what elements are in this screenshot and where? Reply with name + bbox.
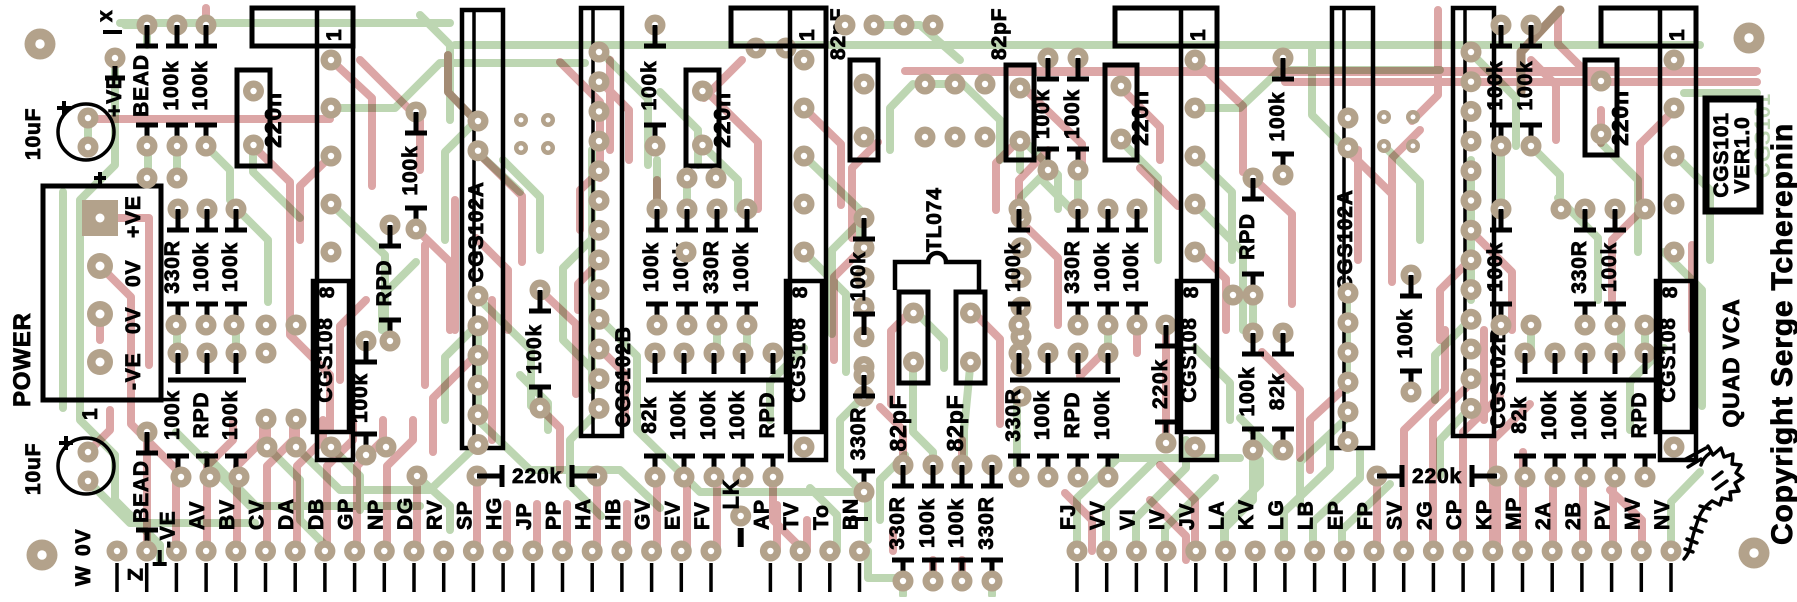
resistor R41 100k bbox=[1266, 58, 1294, 175]
header U9 CGS108 channel4 bbox=[1601, 8, 1696, 460]
svg-text:330R: 330R bbox=[1061, 240, 1084, 293]
resistor R50 330R bbox=[1568, 209, 1596, 325]
node GP bbox=[344, 541, 365, 562]
silk bus bar block3 bbox=[1010, 378, 1120, 383]
node SV bbox=[1393, 541, 1414, 562]
node 2G bbox=[1423, 541, 1444, 562]
svg-text:RPD: RPD bbox=[190, 392, 213, 439]
node FJ bbox=[1067, 541, 1088, 562]
svg-text:2B: 2B bbox=[1562, 502, 1585, 530]
svg-text:100k: 100k bbox=[1031, 89, 1054, 139]
node RV bbox=[433, 541, 454, 562]
svg-text:LB: LB bbox=[1295, 500, 1318, 530]
svg-text:CGS101: CGS101 bbox=[1710, 112, 1733, 197]
node VV bbox=[1096, 541, 1117, 562]
svg-text:JV: JV bbox=[1176, 503, 1199, 530]
resistor R35 100k bbox=[1120, 209, 1148, 325]
svg-text:100k: 100k bbox=[1394, 309, 1417, 359]
svg-text:100k: 100k bbox=[640, 242, 663, 292]
capacitor C9 220n bbox=[1105, 65, 1153, 160]
node x marker bbox=[94, 10, 122, 32]
resistor R24 330R bbox=[847, 375, 875, 492]
resistor R56 RPD bbox=[1628, 353, 1656, 477]
svg-text:DA: DA bbox=[275, 498, 298, 530]
resistor R30 100k bbox=[1031, 58, 1059, 170]
node HG bbox=[493, 541, 514, 562]
resistor R12 100k bbox=[638, 25, 666, 146]
svg-text:100k: 100k bbox=[1484, 242, 1507, 292]
node DA bbox=[285, 541, 306, 562]
resistor R43 100k bbox=[1236, 333, 1264, 450]
svg-text:100k: 100k bbox=[638, 61, 661, 111]
svg-text:VER1.0: VER1.0 bbox=[1731, 116, 1754, 193]
svg-text:MP: MP bbox=[1503, 497, 1526, 530]
svg-text:330R: 330R bbox=[847, 407, 870, 460]
ferrite bead L2 bbox=[130, 432, 158, 551]
resistor R39 100k bbox=[1091, 353, 1119, 477]
svg-text:BN: BN bbox=[840, 498, 863, 530]
svg-text:100k: 100k bbox=[523, 324, 546, 374]
svg-text:IV: IV bbox=[1146, 509, 1169, 530]
svg-text:GP: GP bbox=[335, 498, 358, 530]
svg-text:100k: 100k bbox=[399, 146, 422, 196]
silk bus bar block4 bbox=[1516, 378, 1656, 383]
resistor R44 82k bbox=[1266, 333, 1294, 450]
svg-text:BEAD: BEAD bbox=[130, 54, 153, 117]
resistor R52 82k bbox=[1508, 353, 1536, 477]
header U7 CGS102A channel4 bbox=[1332, 8, 1373, 448]
wire silk dash near To bbox=[845, 517, 868, 521]
svg-text:NP: NP bbox=[364, 499, 387, 530]
svg-text:100k: 100k bbox=[1484, 61, 1507, 111]
svg-text:NV: NV bbox=[1651, 499, 1674, 530]
svg-text:8: 8 bbox=[789, 286, 812, 298]
resistor R1 100k bbox=[160, 25, 188, 146]
svg-text:220n: 220n bbox=[1127, 90, 1153, 146]
svg-text:1: 1 bbox=[1187, 29, 1210, 41]
node PP bbox=[552, 541, 573, 562]
node +VE pad bbox=[105, 48, 126, 69]
svg-text:82pF: 82pF bbox=[988, 8, 1011, 60]
capacitor C6 82pF bbox=[885, 292, 928, 451]
svg-text:100k: 100k bbox=[945, 498, 968, 548]
resistor R37 100k bbox=[1031, 353, 1059, 477]
capacitor C7 82pF bbox=[942, 292, 985, 451]
svg-text:CGS102A: CGS102A bbox=[1334, 189, 1357, 290]
svg-text:DB: DB bbox=[305, 498, 328, 530]
resistor R7 RPD bbox=[190, 353, 218, 477]
svg-text:8: 8 bbox=[1659, 286, 1682, 298]
svg-text:100k: 100k bbox=[161, 390, 184, 440]
svg-text:CGS108: CGS108 bbox=[787, 317, 810, 402]
svg-text:MV: MV bbox=[1621, 497, 1644, 530]
svg-text:PP: PP bbox=[543, 500, 566, 530]
svg-text:82pF: 82pF bbox=[885, 395, 911, 452]
svg-text:+VE: +VE bbox=[122, 195, 145, 238]
svg-text:DG: DG bbox=[394, 497, 417, 530]
resistor R45 100k bbox=[1394, 275, 1422, 392]
svg-text:100k: 100k bbox=[1514, 61, 1537, 111]
mounting hole bbox=[1739, 538, 1770, 569]
node EV bbox=[671, 541, 692, 562]
mounting hole bbox=[27, 540, 58, 571]
svg-text:AV: AV bbox=[186, 501, 209, 530]
svg-text:CGS102B: CGS102B bbox=[612, 326, 635, 427]
svg-text:LA: LA bbox=[1206, 500, 1229, 530]
svg-text:330R: 330R bbox=[886, 496, 909, 549]
node SP bbox=[463, 541, 484, 562]
resistor R32 100k bbox=[1002, 209, 1030, 325]
node NP bbox=[374, 541, 395, 562]
label CGS101 VER1.0 box bbox=[1706, 99, 1760, 211]
svg-text:220n: 220n bbox=[709, 92, 735, 148]
svg-text:100k: 100k bbox=[349, 373, 372, 423]
resistor R40 220k bbox=[1149, 325, 1177, 443]
svg-text:VI: VI bbox=[1116, 509, 1139, 530]
node PV bbox=[1601, 541, 1622, 562]
svg-text:RPD: RPD bbox=[373, 260, 396, 307]
svg-text:FJ: FJ bbox=[1057, 504, 1080, 530]
silk bus bar block1 bbox=[168, 378, 246, 383]
svg-text:100k: 100k bbox=[1538, 390, 1561, 440]
svg-text:RPD: RPD bbox=[756, 392, 779, 439]
resistor R47 100k bbox=[1484, 25, 1512, 146]
resistor R55 100k bbox=[1598, 353, 1626, 477]
resistor R10 100k bbox=[523, 290, 551, 408]
svg-text:1: 1 bbox=[79, 408, 102, 420]
node AP bbox=[760, 541, 781, 562]
header U5 CGS108 channel2 bbox=[731, 8, 826, 460]
svg-text:RPD: RPD bbox=[1628, 392, 1651, 439]
capacitor C3 220n bbox=[237, 70, 286, 166]
node AV bbox=[196, 541, 217, 562]
capacitor C4 220n bbox=[686, 70, 735, 166]
header U3 CGS102A channel1 bbox=[462, 10, 503, 448]
resistor R15 330R bbox=[700, 209, 728, 325]
svg-text:JP: JP bbox=[513, 503, 536, 530]
node HA bbox=[582, 541, 603, 562]
svg-text:FV: FV bbox=[691, 502, 714, 530]
svg-text:POWER: POWER bbox=[9, 312, 36, 407]
svg-text:100k: 100k bbox=[160, 61, 183, 111]
svg-text:1: 1 bbox=[1666, 29, 1689, 41]
node VI bbox=[1126, 541, 1147, 562]
node HB bbox=[611, 541, 632, 562]
svg-text:100k: 100k bbox=[667, 390, 690, 440]
header U4 CGS102B channel1 bbox=[581, 8, 635, 436]
svg-text:220k: 220k bbox=[1149, 359, 1172, 409]
svg-text:82k: 82k bbox=[1508, 396, 1531, 433]
header U6 CGS108 channel3 bbox=[1115, 8, 1217, 460]
svg-text:330R: 330R bbox=[975, 496, 998, 549]
node JP bbox=[522, 541, 543, 562]
svg-text:EV: EV bbox=[661, 500, 684, 530]
svg-text:CGS108: CGS108 bbox=[1178, 317, 1201, 402]
resistor R54 100k bbox=[1568, 353, 1596, 477]
node +VE label bbox=[103, 66, 126, 117]
mounting hole bbox=[1734, 23, 1765, 54]
svg-text:100k: 100k bbox=[847, 252, 870, 302]
svg-text:-VE: -VE bbox=[156, 511, 179, 548]
node NV bbox=[1661, 541, 1682, 562]
svg-text:10uF: 10uF bbox=[22, 443, 45, 495]
svg-text:FP: FP bbox=[1354, 502, 1377, 530]
svg-text:330R: 330R bbox=[161, 240, 184, 293]
svg-text:330R: 330R bbox=[700, 240, 723, 293]
svg-text:-VE: -VE bbox=[122, 353, 145, 390]
svg-text:100k: 100k bbox=[189, 61, 212, 111]
svg-text:CGS102A: CGS102A bbox=[465, 181, 488, 282]
svg-text:100k: 100k bbox=[1091, 390, 1114, 440]
capacitor C2 10uF bbox=[22, 436, 114, 495]
svg-text:QUAD VCA: QUAD VCA bbox=[1718, 298, 1744, 427]
svg-text:100k: 100k bbox=[1002, 242, 1025, 292]
svg-text:KV: KV bbox=[1235, 499, 1258, 530]
node LG bbox=[1274, 541, 1295, 562]
svg-text:To: To bbox=[810, 504, 833, 530]
resistor R14 100k bbox=[670, 209, 698, 325]
node DG bbox=[404, 541, 425, 562]
svg-text:PV: PV bbox=[1592, 500, 1615, 530]
svg-text:100k: 100k bbox=[219, 242, 242, 292]
svg-text:100k: 100k bbox=[1120, 242, 1143, 292]
node W bbox=[107, 541, 128, 562]
svg-text:82k: 82k bbox=[638, 396, 661, 433]
svg-text:220n: 220n bbox=[260, 92, 286, 148]
node -VE bbox=[166, 541, 187, 562]
capacitor C10 220n bbox=[1585, 60, 1633, 155]
resistor R31 100k bbox=[1061, 58, 1089, 170]
resistor R22 100k bbox=[847, 218, 875, 335]
resistor R34 100k bbox=[1091, 209, 1119, 325]
resistor R38 RPD bbox=[1061, 353, 1089, 477]
ferrite bead L1 bbox=[130, 25, 158, 146]
resistor R61 RPD bbox=[373, 225, 401, 341]
svg-text:10uF: 10uF bbox=[22, 108, 45, 160]
resistor R2 100k bbox=[189, 25, 217, 146]
svg-text:100k: 100k bbox=[1091, 242, 1114, 292]
svg-text:100k: 100k bbox=[1236, 367, 1259, 417]
svg-text:100k: 100k bbox=[1598, 242, 1621, 292]
node TV bbox=[790, 541, 811, 562]
resistor R26 330R bbox=[886, 465, 914, 581]
node CV bbox=[255, 541, 276, 562]
node LB bbox=[1304, 541, 1325, 562]
resistor R16 100k bbox=[730, 209, 758, 325]
svg-text:100k: 100k bbox=[190, 242, 213, 292]
svg-text:8: 8 bbox=[316, 286, 339, 298]
resistor R27 100k bbox=[916, 465, 944, 581]
node FV bbox=[701, 541, 722, 562]
node CP bbox=[1453, 541, 1474, 562]
svg-text:TV: TV bbox=[780, 502, 803, 530]
mounting hole bbox=[25, 29, 56, 60]
resistor R46 220k bbox=[1377, 465, 1497, 488]
silk bus bar block2 bbox=[646, 378, 784, 383]
svg-text:GV: GV bbox=[632, 498, 655, 530]
svg-text:EP: EP bbox=[1324, 500, 1347, 530]
resistor R28 100k bbox=[945, 465, 973, 581]
svg-text:CGS102B: CGS102B bbox=[1487, 327, 1510, 428]
svg-text:100k: 100k bbox=[916, 498, 939, 548]
resistor R4 100k bbox=[190, 209, 218, 325]
svg-text:100k: 100k bbox=[219, 390, 242, 440]
svg-text:AP: AP bbox=[750, 499, 773, 530]
capacitor C1 10uF bbox=[22, 101, 114, 160]
node BN bbox=[849, 541, 870, 562]
svg-text:220k: 220k bbox=[1412, 465, 1462, 488]
resistor R60 100k bbox=[399, 112, 427, 229]
svg-text:Copyright Serge Tcherepnin: Copyright Serge Tcherepnin bbox=[1766, 123, 1797, 545]
resistor R53 100k bbox=[1538, 353, 1566, 477]
node FP bbox=[1364, 541, 1385, 562]
via cluster 2 bbox=[1377, 110, 1391, 124]
svg-text:1: 1 bbox=[796, 29, 819, 41]
svg-text:330R: 330R bbox=[1002, 388, 1025, 441]
svg-text:100k: 100k bbox=[1266, 92, 1289, 142]
resistor R6 100k bbox=[161, 353, 189, 477]
svg-text:BV: BV bbox=[216, 499, 239, 530]
resistor R21 RPD bbox=[756, 353, 784, 477]
node KV bbox=[1245, 541, 1266, 562]
node IV bbox=[1156, 541, 1177, 562]
svg-text:100k: 100k bbox=[1598, 390, 1621, 440]
svg-text:82k: 82k bbox=[1266, 373, 1289, 410]
resistor R33 330R bbox=[1061, 209, 1089, 325]
svg-text:HG: HG bbox=[483, 497, 506, 530]
svg-text:W: W bbox=[72, 565, 95, 586]
svg-text:BEAD: BEAD bbox=[130, 460, 153, 523]
node JV bbox=[1185, 541, 1206, 562]
svg-text:HB: HB bbox=[602, 498, 625, 530]
node EP bbox=[1334, 541, 1355, 562]
svg-text:RPD: RPD bbox=[1236, 213, 1259, 260]
header U8 CGS102B channel4 bbox=[1453, 8, 1510, 436]
logo unicorn bbox=[1684, 446, 1743, 559]
svg-text:Z: Z bbox=[125, 567, 148, 581]
node LA bbox=[1215, 541, 1236, 562]
resistor R5 100k bbox=[219, 209, 247, 325]
svg-text:RPD: RPD bbox=[1061, 392, 1084, 439]
resistor R3 330R bbox=[161, 209, 189, 325]
svg-text:2A: 2A bbox=[1532, 502, 1555, 530]
node KP bbox=[1482, 541, 1503, 562]
svg-text:CGS108: CGS108 bbox=[1657, 317, 1680, 402]
resistor R48 100k bbox=[1514, 25, 1542, 146]
node 2B bbox=[1571, 541, 1592, 562]
svg-text:0V: 0V bbox=[122, 307, 145, 334]
svg-text:100k: 100k bbox=[697, 390, 720, 440]
node To bbox=[819, 541, 840, 562]
resistor R13 100k bbox=[640, 209, 668, 325]
svg-text:TL074: TL074 bbox=[923, 187, 946, 252]
svg-text:220k: 220k bbox=[512, 465, 562, 488]
resistor R36 330R bbox=[1002, 353, 1030, 477]
node DB bbox=[314, 541, 335, 562]
svg-text:1: 1 bbox=[323, 29, 346, 41]
node MP bbox=[1512, 541, 1533, 562]
op-amp U1 TL074 bbox=[895, 187, 979, 290]
svg-text:330R: 330R bbox=[1568, 240, 1591, 293]
svg-text:100k: 100k bbox=[1061, 89, 1084, 139]
svg-text:0V: 0V bbox=[72, 529, 95, 556]
node BV bbox=[225, 541, 246, 562]
svg-text:100k: 100k bbox=[726, 390, 749, 440]
svg-text:LG: LG bbox=[1265, 499, 1288, 530]
svg-text:2G: 2G bbox=[1413, 500, 1436, 530]
resistor R51 100k bbox=[1598, 209, 1626, 325]
svg-text:CGS108: CGS108 bbox=[314, 317, 337, 402]
svg-text:100k: 100k bbox=[730, 242, 753, 292]
node Z bbox=[136, 541, 157, 562]
node LK bbox=[730, 506, 751, 527]
svg-text:100k: 100k bbox=[1031, 390, 1054, 440]
svg-text:CP: CP bbox=[1443, 499, 1466, 530]
svg-text:KP: KP bbox=[1473, 499, 1496, 530]
svg-text:HA: HA bbox=[572, 498, 595, 530]
resistor R29 330R bbox=[975, 465, 1003, 581]
resistor R20 100k bbox=[726, 353, 754, 477]
node 2A bbox=[1542, 541, 1563, 562]
svg-text:8: 8 bbox=[1180, 286, 1203, 298]
svg-text:VV: VV bbox=[1087, 500, 1110, 530]
resistor R9 220k bbox=[477, 465, 597, 488]
resistor R8 100k bbox=[219, 353, 247, 477]
node GV bbox=[641, 541, 662, 562]
svg-text:SP: SP bbox=[453, 500, 476, 530]
svg-text:82pF: 82pF bbox=[942, 395, 968, 452]
resistor R18 100k bbox=[667, 353, 695, 477]
resistor R19 100k bbox=[697, 353, 725, 477]
svg-text:100k: 100k bbox=[1568, 390, 1591, 440]
via cluster 1 bbox=[514, 113, 528, 127]
svg-text:x: x bbox=[94, 10, 117, 22]
svg-text:SV: SV bbox=[1384, 500, 1407, 530]
resistor R62 100k bbox=[349, 341, 377, 455]
svg-text:CV: CV bbox=[246, 499, 269, 530]
node MV bbox=[1631, 541, 1652, 562]
svg-text:LK: LK bbox=[719, 479, 744, 510]
svg-text:220n: 220n bbox=[1607, 90, 1633, 146]
header U2 CGS108 channel1 bbox=[252, 8, 353, 460]
svg-text:RV: RV bbox=[424, 500, 447, 530]
resistor R49 100k bbox=[1484, 209, 1512, 325]
U1 pin 1 pad bbox=[854, 208, 875, 229]
resistor R42 RPD bbox=[1236, 178, 1264, 295]
resistor R17 82k bbox=[638, 353, 666, 477]
svg-text:0V: 0V bbox=[122, 260, 145, 287]
connector J1 POWER bbox=[9, 172, 161, 420]
